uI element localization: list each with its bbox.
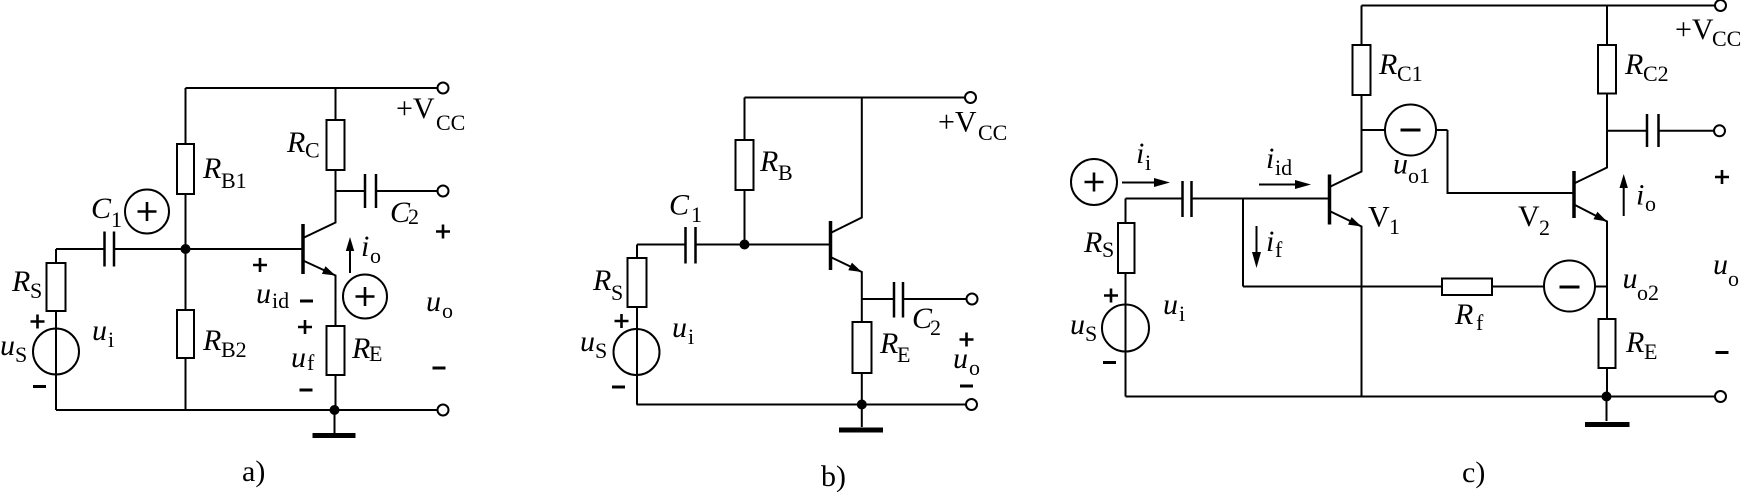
svg-text:i: i [1636,179,1644,212]
svg-text:S: S [30,278,42,303]
svg-text:f: f [1476,310,1484,335]
svg-text:R: R [592,264,611,297]
label RC2 [1624,48,1669,86]
svg-text:o: o [370,243,381,268]
label C1 b [669,189,702,228]
svg-text:R: R [351,332,370,365]
label RE a [351,332,382,366]
transistor Q b [831,98,862,300]
label C2 b [912,302,941,340]
arrow io c [1620,174,1628,216]
svg-text:i: i [108,327,114,352]
label uo c [1713,248,1739,291]
minus sign uo b [960,385,973,388]
resistor RB [736,98,754,245]
label ui b [672,311,694,349]
wire: feedback horizontal c [1243,286,1442,288]
svg-text:u: u [1163,288,1178,321]
label RS b [592,264,623,305]
svg-text:+V: +V [396,92,435,125]
svg-text:1: 1 [691,202,702,227]
resistor RB1 [177,88,194,249]
svg-text:+V: +V [938,106,977,139]
label uS b [580,325,607,363]
svg-text:C: C [91,192,112,225]
label uo2 [1623,262,1660,305]
label RB [759,145,793,185]
svg-text:u: u [426,285,441,318]
resistor RC1 [1353,6,1371,131]
terminal +Vcc a [438,83,449,94]
capacitor output c [1607,114,1714,147]
label +Vcc c [1675,13,1741,51]
svg-text:o: o [1645,191,1656,216]
svg-text:C: C [669,189,690,222]
svg-text:u: u [256,277,271,310]
svg-text:R: R [286,126,305,159]
wire: bottom rail a [56,409,438,411]
minus sign uid a [300,300,313,303]
resistor RB2 [177,249,194,410]
capacitor C1 b [637,227,745,264]
junction dot ground b [857,400,867,410]
plus sign uid a [253,258,267,272]
terminal output c [1714,125,1725,136]
svg-text:E: E [897,342,910,367]
arrow iid [1259,180,1311,189]
svg-text:a): a) [242,455,265,488]
label uS a [0,329,27,367]
svg-text:B: B [778,160,793,185]
wire: base V1 c [1243,198,1328,200]
label RC [286,126,320,163]
caption b [821,460,846,492]
svg-text:C: C [305,138,320,163]
resistor RS c [1118,199,1135,274]
terminal +Vcc b [965,92,976,103]
phase marker plus near RE a [343,275,387,319]
ground c [1585,397,1630,425]
svg-text:B2: B2 [221,337,247,362]
svg-text:R: R [202,324,221,357]
transistor V1 [1330,130,1362,397]
wire: +Vcc top rail a [186,87,438,89]
minus sign uo a [433,367,446,370]
plus sign uS c [1104,289,1118,303]
svg-text:o: o [969,355,980,380]
junction dot base b [740,240,750,250]
resistor Rf [1442,279,1544,296]
svg-text:+V: +V [1675,13,1714,46]
label RS c [1083,226,1114,262]
minus sign uo c [1716,351,1729,354]
svg-text:i: i [1145,150,1151,175]
svg-text:S: S [1102,237,1114,262]
svg-text:o: o [1728,266,1739,291]
svg-text:b): b) [821,460,846,492]
label uid a [256,277,289,313]
svg-text:u: u [1623,262,1638,295]
caption c [1462,456,1485,489]
minus sign uf a [300,389,313,392]
svg-text:1: 1 [1389,214,1400,239]
svg-text:CC: CC [436,110,465,135]
label ui c [1163,288,1185,326]
svg-text:CC: CC [1712,26,1741,51]
svg-text:1: 1 [111,207,122,232]
label ui a [92,314,114,352]
svg-text:o2: o2 [1637,280,1659,305]
svg-text:S: S [595,338,607,363]
source uS c [1102,273,1149,397]
wire: uo1 to V2 base [1448,130,1574,193]
svg-text:R: R [202,152,221,185]
resistor RC [327,88,345,191]
label Rf [1454,298,1484,335]
wire: feedback tap c [1242,199,1244,287]
svg-text:S: S [1085,321,1097,346]
svg-text:2: 2 [930,315,941,340]
arrow ii [1122,178,1170,187]
svg-text:i: i [688,324,694,349]
terminal output bottom a [438,405,449,416]
svg-text:C2: C2 [1643,61,1669,86]
svg-text:o: o [442,298,453,323]
arrow io a [346,237,354,273]
minus sign uS b [612,386,625,389]
phase marker uo2 [1544,261,1607,312]
svg-text:u: u [291,341,306,374]
svg-text:2: 2 [408,204,419,229]
resistor RE c [1599,287,1616,397]
minus sign uS a [33,385,46,388]
terminal output b [967,294,978,305]
capacitor C1 a [56,232,186,267]
phase marker uo1 [1362,105,1448,156]
label io a [361,230,381,268]
label uf a [291,341,315,375]
plus sign uo b [960,333,974,347]
label uS c [1070,308,1097,346]
caption a [242,455,265,488]
terminal output top a [438,186,449,197]
wire: bottom rail b [637,404,967,406]
svg-text:CC: CC [978,120,1007,145]
label uo a [426,285,453,323]
svg-text:c): c) [1462,456,1485,489]
label V2 [1518,200,1550,240]
terminal +Vcc c [1715,0,1726,11]
ground a [313,410,356,436]
junction dot base a [181,244,191,254]
label ii [1136,137,1151,175]
svg-text:V: V [1368,201,1390,234]
svg-text:u: u [672,311,687,344]
minus sign uS c [1103,361,1116,364]
svg-text:E: E [369,341,382,366]
svg-text:u: u [1070,308,1085,341]
svg-text:u: u [953,342,968,375]
svg-text:R: R [879,327,898,360]
label io c [1636,179,1656,217]
svg-text:u: u [1393,148,1408,181]
wire: +Vcc top rail b [745,97,966,99]
svg-text:R: R [759,145,778,178]
resistor RE b [853,299,872,405]
wire: bottom rail c [1126,396,1716,398]
phase marker plus near C1 a [125,190,169,234]
resistor RC2 [1598,6,1616,131]
terminal bottom c [1715,391,1726,402]
svg-text:R: R [1454,298,1473,331]
svg-text:i: i [1179,301,1185,326]
svg-text:u: u [580,325,595,358]
svg-text:i: i [1266,142,1274,175]
resistor RS a [47,249,66,311]
plus sign uf a [298,320,312,334]
capacitor C2 a [336,174,438,208]
label +Vcc a [396,92,465,135]
plus sign uo a [436,225,450,239]
svg-text:id: id [1275,155,1292,180]
svg-text:R: R [1378,48,1397,81]
label RE c [1625,326,1657,364]
svg-text:u: u [1713,248,1728,281]
label iid [1266,142,1292,180]
svg-text:E: E [1644,339,1657,364]
ground b [839,405,883,431]
svg-text:o1: o1 [1408,163,1430,188]
svg-text:R: R [1624,48,1643,81]
svg-text:C1: C1 [1397,61,1423,86]
label if [1266,225,1283,262]
transistor V2 [1574,131,1607,287]
svg-text:id: id [272,288,289,313]
svg-text:2: 2 [1539,215,1550,240]
transistor Q a [303,191,336,326]
svg-text:i: i [1136,137,1144,170]
svg-text:u: u [0,329,15,362]
label RC1 [1378,48,1423,86]
source uS a [33,311,79,410]
junction dot ground c [1602,392,1612,402]
label RB2 [202,324,247,362]
svg-text:f: f [307,350,315,375]
junction dot ground a [330,405,340,415]
label RB1 [202,152,247,193]
capacitor input c [1126,181,1244,217]
svg-text:f: f [1275,237,1283,262]
plus sign uS b [615,314,629,328]
terminal bottom b [966,399,977,410]
capacitor C2 b [862,282,967,318]
svg-text:S: S [611,280,623,305]
label uo1 [1393,148,1430,189]
plus sign uS a [31,315,45,329]
resistor RE a [327,326,345,410]
phase marker plus input c [1071,159,1117,205]
label RS a [11,265,42,303]
svg-text:B1: B1 [221,168,247,193]
wire: +Vcc top rail c [1362,5,1716,7]
wire: base a [186,248,303,250]
svg-text:S: S [15,342,27,367]
svg-text:i: i [1266,225,1274,258]
label C2 a [390,196,419,229]
label V1 [1368,201,1400,240]
label RE b [879,327,910,367]
wire: base b [745,244,830,246]
resistor RS b [628,245,647,308]
svg-text:R: R [11,265,30,298]
source uS b [614,307,660,405]
svg-text:R: R [1625,326,1644,359]
svg-text:i: i [361,230,369,263]
svg-text:u: u [92,314,107,347]
svg-text:R: R [1083,226,1102,259]
plus sign uo c [1715,170,1729,184]
label uo b [953,342,980,380]
label +Vcc b [938,106,1007,146]
arrow if [1252,226,1261,268]
svg-text:V: V [1518,200,1540,233]
label C1 a [91,192,122,232]
